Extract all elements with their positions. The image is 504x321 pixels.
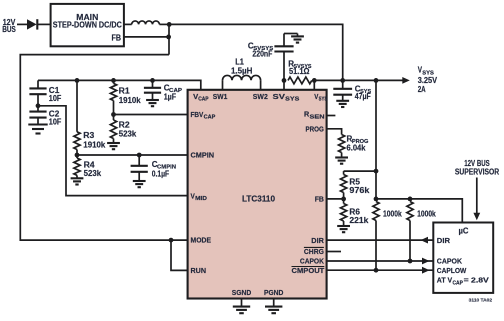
svg-text:1910k: 1910k [83,141,106,150]
wire R5 top [344,170,376,172]
block microcontroller uC [433,223,493,293]
node FB junction [341,197,346,202]
svg-text:SV: SV [273,92,287,101]
resistor R4 [74,155,80,178]
svg-text:DIR: DIR [311,236,324,245]
svg-text:SEN: SEN [310,114,325,120]
label CCMPIN value [152,160,176,179]
svg-text:CAP: CAP [204,115,216,121]
svg-text:976k: 976k [349,186,370,195]
svg-text:PGND: PGND [264,288,284,297]
svg-text:AT V: AT V [437,276,453,285]
wire CMPOUT to CAPLOW [327,269,434,271]
label CSVSYS value [248,42,274,59]
label R5 value [349,178,370,196]
pin label RUN [191,266,207,275]
svg-text:47µF: 47µF [355,92,371,101]
label CSYS value [355,84,372,101]
wire RSEN stub [327,115,336,117]
arrow DIR toward IC [421,237,429,244]
node pullup drop tap [374,78,379,83]
resistor R6 [341,199,347,226]
wire VMID from C1/C2 midpoint [38,106,188,196]
svg-text:1910k: 1910k [119,96,142,105]
inductor L1 [223,75,261,90]
node R3 R4 junction [75,153,80,158]
svg-text:6.04k: 6.04k [347,144,367,153]
capacitor CCMPIN [131,155,148,181]
svg-text:51.1Ω: 51.1Ω [289,67,310,76]
wire VSYS pin stub [313,80,315,90]
wire diode to main dc/dc [38,23,51,25]
wire CHRG stub [327,251,341,253]
wire CAPOK [327,260,434,262]
wire VSYS drop to R5 junction [375,80,377,198]
svg-text:523k: 523k [119,130,137,139]
pin label MODE [191,236,212,245]
wire VCAP rail [38,80,201,90]
node R5 top tap [374,169,379,174]
svg-text:DIR: DIR [437,236,451,245]
node 1000k left to CAPLOW [374,268,379,273]
resistor R5 [341,171,347,199]
label 1000k right [417,210,436,219]
svg-text:CHRG: CHRG [304,247,324,256]
label L1 value [231,57,253,75]
pin label RSEN [304,110,325,121]
node C1 C2 midpoint [36,103,41,108]
svg-text:SW2: SW2 [253,92,268,101]
node MODE/RUN junction [169,238,174,243]
wire output node down to FB node and lower rail [168,24,170,54]
svg-text:R2: R2 [119,121,131,130]
svg-text:CAP: CAP [453,280,464,286]
pin label PROG [306,125,324,134]
resistor RPROG [339,135,345,158]
resistor pull-up 1000k left [373,202,379,271]
node CCMPIN tap [137,153,142,158]
pin label CAPOK [300,257,324,266]
svg-text:CMPOUT: CMPOUT [292,266,325,275]
svg-text:3110 TA02: 3110 TA02 [469,297,493,302]
node pullup rail left [374,197,379,202]
svg-text:SGND: SGND [232,288,252,297]
label figure number 3110 TA02 [469,297,493,302]
svg-text:LTC3110: LTC3110 [242,194,276,203]
svg-text:SUPERVISOR: SUPERVISOR [455,167,499,176]
svg-text:RUN: RUN [191,266,207,275]
label RSVSYS value [288,60,312,77]
wire FBVCAP [114,114,188,116]
node 1000k right to CAPOK [408,259,413,264]
node FB junction [166,35,171,40]
wire pullup rail to uC [376,199,462,223]
svg-text:220nF: 220nF [252,49,272,58]
resistor RSVSYS [288,77,312,84]
svg-text:CAP: CAP [198,97,209,103]
node VCAP rail R3 tap [75,78,80,83]
pin label PGND [264,288,284,297]
capacitor C2 [29,106,46,125]
pin label SVSYS [273,92,300,103]
ground below R4 [71,178,84,184]
label R6 value [349,207,369,225]
wire 12V bus to diode [17,23,27,25]
label AT VCAP = 2.8V [437,276,489,287]
node R1 R2 junction FBVCAP [111,112,116,117]
svg-text:FB: FB [112,33,122,42]
label C1 value [49,86,62,103]
svg-text:PROG: PROG [306,125,324,134]
pin label SGND [232,288,252,297]
label R2 value [119,121,137,139]
svg-text:STEP-DOWN DC/DC: STEP-DOWN DC/DC [53,21,122,30]
wire PROG [327,129,342,135]
pin label VCAP [193,92,209,103]
op IC U1 LTC3110 body [188,90,327,299]
label CCAP value [164,84,183,102]
pin label CMPIN [191,151,215,160]
ground below C2 [28,125,47,134]
svg-text:µC: µC [459,227,469,236]
ground below R6 [337,226,350,232]
ground below RPROG [335,158,348,164]
label 1000k left [383,210,402,219]
net 12V BUS input label [2,17,16,34]
node pullup rail right [408,197,413,202]
svg-text:L1: L1 [235,57,244,66]
label C2 value [49,110,62,127]
label R4 value [84,161,102,179]
pin label CMPOUT with overline [292,266,325,275]
wire DIR [327,239,434,241]
svg-text:FB: FB [315,195,325,204]
svg-text:221k: 221k [349,216,369,225]
svg-text:1.5µH: 1.5µH [231,67,253,76]
svg-text:= 2.8V: = 2.8V [464,276,489,285]
label RPROG value [347,135,369,153]
svg-text:SW1: SW1 [213,92,228,101]
svg-text:10F: 10F [49,94,62,103]
node SVSYS [282,78,287,83]
svg-text:2A: 2A [418,85,426,94]
node CSYS tap [340,78,345,83]
pin label FBVCAP [191,110,216,121]
capacitor CSVSYS [274,34,297,81]
label R3 value [83,131,106,150]
capacitor C1 [29,80,46,105]
svg-text:CAPLOW: CAPLOW [437,266,467,275]
label LTC3110 [242,194,276,203]
svg-text:523k: 523k [84,169,102,178]
node main output junction [167,22,172,27]
pin label SW1 [213,92,228,101]
arrow CAPOK into uC [422,258,430,265]
arrow VSYS output [402,77,410,84]
node VCAP rail R1 tap [111,78,116,83]
wire converter FB to node [124,36,169,38]
svg-text:3.25V: 3.25V [418,76,438,85]
pin label VSYS top [314,92,327,103]
wire CMPIN [77,154,188,156]
svg-text:CAPOK: CAPOK [437,257,463,266]
svg-text:MODE: MODE [191,236,212,245]
svg-text:FBV: FBV [191,110,205,119]
arrow CAPLOW into uC [422,267,430,274]
pin label CHRG with overline [304,247,324,256]
ground PGND [265,299,282,313]
capacitor CCAP [144,80,161,100]
svg-text:1000k: 1000k [383,210,402,219]
ground below R2 [107,143,120,149]
resistor pull-up 1000k right [407,202,413,262]
svg-text:CAPOK: CAPOK [300,257,324,266]
svg-text:SYS: SYS [285,97,300,103]
pin label SW2 [253,92,268,101]
resistor R1 [110,80,116,114]
wire top rail to VSYS drop [169,24,343,80]
wire junction to RUN [171,240,188,270]
svg-text:MID: MID [195,196,207,202]
ground SGND [233,299,250,313]
svg-text:R3: R3 [83,131,95,140]
pin label FB [315,195,325,204]
block MAIN STEP-DOWN DC/DC [51,4,124,46]
label R1 value [119,86,142,105]
label VSYS output [418,66,438,94]
ground CSVSYS [291,34,304,43]
svg-text:1000k: 1000k [417,210,436,219]
svg-text:1µF: 1µF [164,93,177,102]
resistor R2 [110,115,116,144]
ground below CCMPIN [133,181,146,187]
ground below CSYS [336,101,349,107]
node VSYS pin [312,78,317,83]
wire FB [327,198,344,200]
diode D1 [27,19,37,29]
node VCAP rail CCAP tap [150,78,155,83]
pin label DIR [311,236,324,245]
pin label VMID [191,191,207,202]
resistor R3 [74,80,80,155]
inductor main output [124,21,169,24]
capacitor CSYS [333,80,352,100]
label 12V BUS SUPERVISOR [455,159,499,176]
wire long left loop to MODE [20,55,187,241]
svg-text:BUS: BUS [2,24,16,34]
svg-text:0.1µF: 0.1µF [152,170,170,179]
svg-text:R1: R1 [119,86,131,95]
svg-text:10F: 10F [49,117,62,126]
svg-text:CMPIN: CMPIN [191,151,215,160]
wire VSYS rail [314,79,403,81]
svg-text:SYS: SYS [319,97,328,103]
wire SVSYS pin stub [283,80,285,90]
ground below CCAP [146,100,159,106]
arrow supervisor to uC [473,178,480,221]
